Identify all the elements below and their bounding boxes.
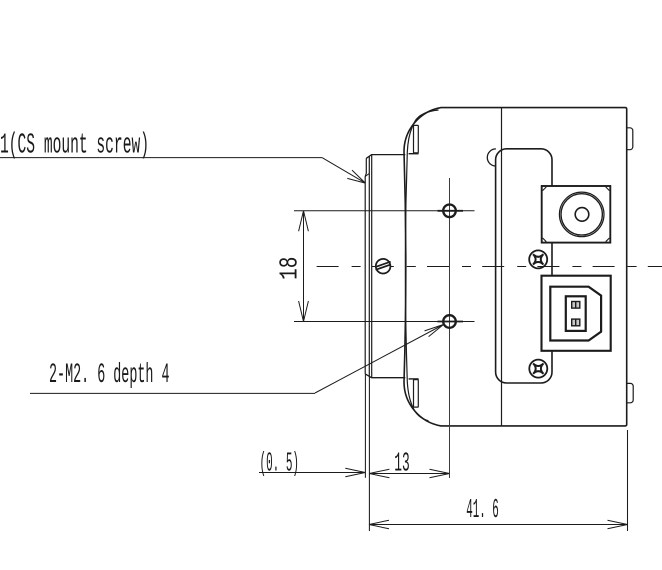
panel notch semicircle <box>487 149 496 166</box>
USB-B tongue <box>566 296 586 331</box>
connector panel <box>496 149 552 383</box>
DC power jack barrel <box>559 192 604 237</box>
lens mount plate top edge <box>366 155 405 159</box>
camera body outline <box>404 108 627 426</box>
svg-text:2-M2. 6 depth 4: 2-M2. 6 depth 4 <box>49 360 170 391</box>
lens mount ring face line 1 <box>365 158 366 374</box>
extension line body rear <box>627 430 629 531</box>
lens mount ring face line 3 <box>371 155 373 378</box>
svg-text:1(CS mount screw): 1(CS mount screw) <box>0 128 149 161</box>
dim 18 line <box>299 211 309 322</box>
lower M2.6 hole <box>443 315 456 328</box>
DC power jack bezel <box>542 186 611 243</box>
panel screw upper <box>529 250 547 268</box>
panel screw lower <box>529 360 547 378</box>
upper M2.6 hole <box>443 205 456 218</box>
extension line ring face lower <box>364 374 366 478</box>
leader line M2.6 holes <box>30 325 444 394</box>
extension line plate face lower <box>368 377 370 532</box>
centerline dash-dot <box>317 266 662 268</box>
spring clip bottom <box>409 379 419 407</box>
dim (0.5) line <box>259 468 365 477</box>
leader line CS mount screw <box>0 158 365 184</box>
lens mount ring face line 2 <box>368 156 370 377</box>
svg-text:13: 13 <box>394 450 410 480</box>
right tab top <box>627 128 633 150</box>
USB-B receptacle shell <box>542 276 611 351</box>
svg-text:41. 6: 41. 6 <box>466 496 499 526</box>
DC power jack pin <box>575 208 589 222</box>
mount screw step on ring <box>365 173 369 176</box>
svg-text:(0. 5): (0. 5) <box>260 449 300 479</box>
dim 13 line <box>369 469 449 478</box>
dim 41.6 line <box>369 520 628 529</box>
lower hole extension line <box>294 321 475 323</box>
svg-text:18: 18 <box>275 257 305 280</box>
body front plate inner edge (double line, slight bow) <box>405 110 438 421</box>
lens mount plate bottom edge <box>365 374 405 378</box>
CS mount set screw <box>376 259 391 274</box>
USB contact upper <box>572 302 580 309</box>
upper hole extension line <box>294 210 475 212</box>
spring clip top <box>409 125 419 153</box>
right tab bottom <box>627 383 634 402</box>
hole centerline vertical <box>449 178 451 478</box>
USB contact lower <box>572 319 580 326</box>
body front section separator line <box>501 108 503 426</box>
